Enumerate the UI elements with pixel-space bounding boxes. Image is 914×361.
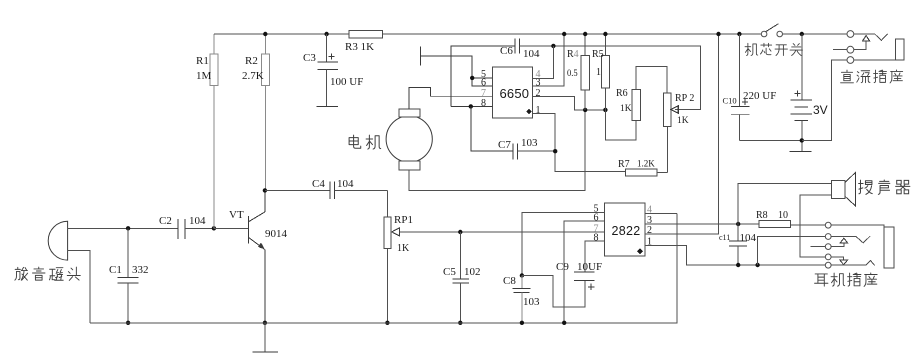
label: 放音磁头 (playback head) <box>15 267 80 280</box>
wire: speaker feed from c11 node <box>738 184 831 224</box>
node: head/C1 junction <box>126 226 130 230</box>
svg-text:1M: 1M <box>196 70 212 82</box>
mechanism switch (机芯开关) <box>761 24 782 37</box>
jack body rectangle <box>884 227 894 268</box>
svg-text:C3: C3 <box>303 52 316 64</box>
contact circle 1 <box>825 222 831 228</box>
wire: circle1 to jack sleeve <box>831 225 884 227</box>
wire + arrow: circle3 to circle2 contact <box>831 243 844 247</box>
svg-text:R8: R8 <box>756 210 768 221</box>
svg-text:104: 104 <box>740 232 757 244</box>
node: C8 top junction <box>520 273 524 277</box>
ground symbol below battery <box>789 151 811 153</box>
svg-text:C10: C10 <box>723 96 737 106</box>
node: R2 top junction <box>263 32 267 36</box>
label: 机芯开关 (mechanism switch) <box>745 43 802 55</box>
node: pin3 top rail junction <box>562 32 566 36</box>
svg-text:1.2K: 1.2K <box>637 159 655 169</box>
jack body rectangle <box>896 39 904 60</box>
6650 pin2 wire to R4/R5 bottoms <box>533 97 606 110</box>
battery 3V <box>790 34 827 152</box>
svg-text:104: 104 <box>523 48 540 60</box>
2822 pin6 wire to ground rail <box>564 221 604 323</box>
wire: circle3 to jack body <box>854 59 896 61</box>
2822 pin3 wire to R8 <box>645 223 759 225</box>
svg-text:R2: R2 <box>245 55 258 67</box>
2822 pin2 wire to top rail <box>645 34 718 234</box>
svg-text:R5: R5 <box>592 49 604 60</box>
wire: bottom ground rail <box>90 213 677 322</box>
svg-text:9014: 9014 <box>265 228 288 240</box>
motor (电机) <box>386 109 432 170</box>
svg-text:C9: C9 <box>556 261 569 273</box>
wire: circle1 chevron <box>854 34 888 41</box>
svg-text:1K: 1K <box>620 104 632 114</box>
resistor R4 <box>567 34 589 110</box>
capacitor C1 <box>109 228 149 322</box>
wire: C8 top to C9 bottom <box>522 276 585 308</box>
svg-text:103: 103 <box>523 296 540 308</box>
svg-text:1: 1 <box>536 105 541 116</box>
wire + arrow: circle2 to circle1 contact <box>854 41 866 50</box>
wire: top supply rail <box>214 33 762 35</box>
label: 扬声器 (speaker) <box>859 180 910 194</box>
node: R5 top rail junction <box>603 32 607 36</box>
resistor R6 <box>605 67 667 140</box>
6650 pin8 stub <box>451 105 493 107</box>
6650 pin3 wire to top rail <box>533 34 565 86</box>
6650 pin4 wire <box>533 46 554 78</box>
wire: circle2 stub <box>833 49 847 51</box>
wire: RP1 wiper to 2822 pin7 <box>399 231 604 233</box>
svg-text:6650: 6650 <box>500 86 530 101</box>
node: RP1 bottom rail junction <box>385 321 389 325</box>
capacitor C10 (electrolytic) <box>723 34 777 140</box>
resistor R5 <box>592 34 610 110</box>
svg-text:R1: R1 <box>196 55 209 67</box>
node: c11 top junction <box>736 222 740 226</box>
node: C3 top junction <box>324 32 328 36</box>
wire: motor top to 6650 pin7 <box>409 88 430 109</box>
node: pin2 top rail junction <box>716 32 720 36</box>
svg-text:C7: C7 <box>498 139 511 151</box>
ground symbol below C3 <box>317 106 339 108</box>
node: R4 top rail junction <box>583 32 587 36</box>
node: emitter ground rail junction <box>263 321 267 325</box>
node: c11 bottom junction <box>736 263 740 267</box>
node: pin5/6 junction <box>470 76 474 80</box>
ground symbol below emitter <box>252 323 278 352</box>
node: collector junction <box>263 188 267 192</box>
resistor R1 <box>196 34 218 228</box>
svg-text:C4: C4 <box>312 178 325 190</box>
node: battery minus junction <box>800 138 804 142</box>
2822 pin1 wire to output line <box>645 246 825 265</box>
resistor R7 <box>618 159 667 176</box>
svg-text:10: 10 <box>778 210 788 221</box>
svg-text:3: 3 <box>536 78 541 89</box>
contact circle 3 <box>825 244 831 250</box>
node: R4 bottom junction <box>583 108 587 112</box>
DC jack (直流插座) <box>802 31 904 141</box>
wire: circle5 switch chevron <box>831 261 875 266</box>
terminal bar symbol left of 6650 <box>420 47 422 66</box>
svg-text:R6: R6 <box>616 88 628 99</box>
svg-text:R4: R4 <box>567 49 579 60</box>
wire: motor bottom to R4/R5 node <box>409 110 585 191</box>
svg-text:2.7K: 2.7K <box>242 70 264 82</box>
label: 耳机插座 (headphone socket) <box>815 273 878 286</box>
wire + arrow: circle4 to circle5 contact <box>831 257 844 260</box>
node: C7 branch on pin8 line <box>469 104 473 108</box>
2822 pin5 wire to C8 <box>522 212 605 275</box>
IC U2 2822 <box>594 203 653 256</box>
svg-text:1K: 1K <box>677 116 689 126</box>
node: headphone branch junction <box>755 263 759 267</box>
svg-text:10UF: 10UF <box>577 261 602 273</box>
capacitor C7 <box>471 106 556 159</box>
svg-text:104: 104 <box>337 178 354 190</box>
node: C5 top junction <box>458 230 462 234</box>
node: C10 top rail junction <box>737 32 741 36</box>
svg-text:6: 6 <box>594 213 599 224</box>
svg-text:R3 1K: R3 1K <box>345 41 374 53</box>
wire: head top to node A <box>68 227 179 229</box>
wire: bar to 6650 pins 5/6 <box>421 56 493 86</box>
contact circle 4 <box>825 254 831 260</box>
svg-text:RP 2: RP 2 <box>675 93 694 104</box>
svg-text:c11: c11 <box>719 233 730 242</box>
node: pin4 junction on C6 line <box>551 44 555 48</box>
wire: head bottom down to ground rail <box>68 250 91 322</box>
wire: rail from switch to DC jack <box>783 33 847 35</box>
svg-text:1: 1 <box>596 67 601 78</box>
svg-text:220 UF: 220 UF <box>743 90 776 102</box>
transistor VT 9014 <box>229 190 288 322</box>
IC U1 6650 <box>481 67 541 118</box>
capacitor C4 <box>265 178 388 199</box>
capacitor C8 <box>503 275 540 323</box>
label: 直流插座 (DC socket) <box>841 70 903 83</box>
potentiometer RP1 <box>384 190 413 322</box>
node: battery top junction <box>800 32 804 36</box>
node: C7 right junction on pin1 wire <box>553 149 557 153</box>
svg-text:1K: 1K <box>397 243 410 254</box>
svg-text:C8: C8 <box>503 275 516 287</box>
node: C5 bottom rail junction <box>458 321 462 325</box>
wire: circle3 to battery minus <box>802 60 847 140</box>
svg-text:C5: C5 <box>443 266 456 278</box>
node: C2/R1/base junction <box>212 226 216 230</box>
svg-text:2: 2 <box>536 88 541 99</box>
playback magnetic head (放音磁头) <box>48 221 67 260</box>
svg-text:VT: VT <box>229 209 244 221</box>
wire: base wire <box>214 227 248 229</box>
capacitor C3 (electrolytic to ground) <box>303 34 363 107</box>
label: 电机 (motor) <box>349 135 381 149</box>
svg-text:6: 6 <box>481 78 486 89</box>
node: C1 bottom rail junction <box>126 321 130 325</box>
wire: output to headphone ring contact <box>758 237 826 266</box>
resistor R8 <box>756 210 825 228</box>
svg-text:104: 104 <box>189 215 206 227</box>
wire: C10 bottom to battery minus <box>739 139 801 141</box>
6650 pin1 wire down to R7 <box>533 114 626 172</box>
node: C8 bottom rail junction <box>520 321 524 325</box>
svg-text:3V: 3V <box>813 103 828 117</box>
svg-text:103: 103 <box>521 137 538 149</box>
capacitor C5 <box>443 232 481 323</box>
svg-text:332: 332 <box>132 264 149 276</box>
contact circle 5 <box>825 262 831 268</box>
capacitor C2 <box>159 215 214 239</box>
2822 pin4 stub to ground rail corner <box>645 212 677 214</box>
svg-text:0.5: 0.5 <box>567 68 578 79</box>
node: pin6 ground rail junction <box>562 321 566 325</box>
svg-text:R7: R7 <box>618 159 630 170</box>
wire: circle2 switch chevron <box>831 236 870 243</box>
capacitor c11 <box>719 224 757 265</box>
svg-text:100 UF: 100 UF <box>330 76 363 88</box>
node: R5 bottom junction <box>603 108 607 112</box>
resistor R3 <box>345 31 383 53</box>
svg-text:C6: C6 <box>500 45 513 57</box>
headphone jack (耳机插座) <box>811 222 894 268</box>
svg-text:102: 102 <box>464 266 481 278</box>
resistor R2 <box>242 34 269 190</box>
wire: circle3 stub (tip) <box>811 246 826 248</box>
svg-text:8: 8 <box>594 233 599 244</box>
capacitor C9 (electrolytic) <box>556 241 605 290</box>
wire: C6 right to RP2 wiper <box>519 46 700 110</box>
svg-text:C1: C1 <box>109 264 122 276</box>
svg-text:2822: 2822 <box>612 224 641 238</box>
potentiometer RP2 <box>664 93 695 173</box>
speaker (扬声器) <box>831 173 855 206</box>
svg-text:2: 2 <box>647 225 652 236</box>
wire: speaker bottom to headphone contact 4 <box>800 195 832 257</box>
contact circle 2 <box>825 234 831 240</box>
svg-text:RP1: RP1 <box>394 214 413 226</box>
capacitor C6 <box>451 38 540 106</box>
6650 pin5 stub <box>472 77 493 79</box>
svg-text:C2: C2 <box>159 215 172 227</box>
svg-text:8: 8 <box>481 98 486 109</box>
